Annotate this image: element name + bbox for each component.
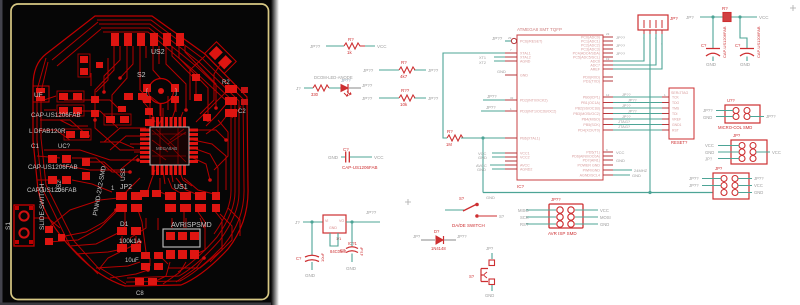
- wire: [379, 69, 426, 71]
- svg-text:CAP-US1206FAB: CAP-US1206FAB: [756, 26, 761, 58]
- svg-text:GND: GND: [328, 155, 339, 160]
- wire: [326, 45, 375, 47]
- svg-text:C8: C8: [136, 291, 144, 297]
- svg-text:GND: GND: [486, 195, 495, 200]
- svg-text:CAP-US1206FAB: CAP-US1206FAB: [27, 187, 77, 194]
- capacitor C3 polarized: [346, 247, 358, 253]
- svg-text:VCC2: VCC2: [520, 156, 530, 160]
- svg-text:C?: C?: [340, 248, 346, 253]
- svg-text:MISO: MISO: [518, 208, 529, 213]
- wires: [716, 111, 764, 117]
- svg-text:R?: R?: [348, 37, 354, 42]
- svg-text:JP??: JP??: [551, 197, 561, 202]
- wire: [445, 209, 464, 211]
- svg-text:IC?: IC?: [517, 184, 525, 189]
- svg-text:US1: US1: [174, 184, 188, 191]
- svg-text:JP??: JP??: [486, 105, 496, 110]
- pad bottom: [489, 279, 495, 285]
- junction: [350, 220, 353, 223]
- switch lever: [463, 205, 476, 212]
- junction: [738, 15, 741, 18]
- resistor R3 row: [363, 60, 439, 79]
- svg-text:S2: S2: [137, 72, 146, 79]
- svg-text:C?: C?: [701, 43, 707, 48]
- svg-text:4k7: 4k7: [400, 74, 408, 79]
- wire stub: [712, 57, 714, 62]
- svg-text:TMS: TMS: [672, 107, 680, 111]
- svg-text:330: 330: [311, 92, 319, 97]
- svg-text:JP??: JP??: [703, 108, 713, 113]
- svg-text:32: 32: [510, 96, 514, 100]
- right bottom power wires: [613, 170, 632, 175]
- svg-text:1k: 1k: [347, 50, 353, 55]
- LED row: [296, 75, 373, 97]
- pad top: [489, 260, 495, 266]
- svg-text:D1: D1: [120, 221, 129, 228]
- svg-text:S?: S?: [499, 214, 505, 219]
- svg-text:XT1: XT1: [479, 56, 486, 60]
- svg-text:MICRO-COL SMD: MICRO-COL SMD: [718, 125, 752, 130]
- svg-text:VCC: VCC: [772, 150, 781, 155]
- svg-text:PB5(SCK): PB5(SCK): [583, 123, 600, 127]
- reset pin bubble: [492, 36, 517, 44]
- svg-text:GND: GND: [706, 62, 717, 67]
- central IC U1 body: [150, 127, 189, 165]
- svg-text:MOSI: MOSI: [600, 215, 611, 220]
- wire: [444, 239, 456, 241]
- svg-text:29: 29: [508, 36, 512, 40]
- pcb background: [0, 0, 277, 305]
- wires MCU to JTAG connector: [613, 97, 662, 130]
- svg-text:JP??: JP??: [754, 176, 764, 181]
- svg-text:PB0(ICP1): PB0(ICP1): [583, 96, 600, 100]
- svg-text:J?: J?: [296, 86, 301, 91]
- svg-text:TDI: TDI: [672, 112, 678, 116]
- svg-text:JP??: JP??: [622, 93, 631, 97]
- svg-text:1N4148: 1N4148: [431, 246, 446, 251]
- wire cap2 drop: [351, 222, 353, 246]
- svg-text:JP??: JP??: [622, 115, 631, 119]
- svg-text:VO: VO: [339, 219, 344, 223]
- svg-text:L DFAB120R: L DFAB120R: [29, 128, 66, 135]
- svg-text:GND: GND: [705, 150, 714, 155]
- wires to top connector: [613, 34, 662, 69]
- svg-text:]: ]: [175, 89, 177, 96]
- wire top: [491, 253, 493, 259]
- wire bottom: [491, 285, 493, 291]
- svg-text:JP??: JP??: [428, 68, 439, 73]
- svg-text:SCK: SCK: [520, 215, 529, 220]
- svg-text:JP??: JP??: [366, 210, 377, 215]
- origin cross 2: [790, 5, 796, 11]
- capacitor C2 polarized: [305, 255, 319, 261]
- svg-text:GND: GND: [346, 266, 357, 271]
- svg-text:JP??: JP??: [616, 51, 626, 56]
- svg-text:AGND: AGND: [520, 60, 531, 64]
- left edge traces: [37, 58, 98, 274]
- svg-text:JP??: JP??: [616, 43, 626, 48]
- svg-text:U??: U??: [727, 98, 735, 103]
- MCU box: [517, 35, 603, 180]
- mid pads row above JP2: [48, 155, 161, 197]
- switch S2 octagon: [137, 72, 179, 104]
- svg-text:AVRISPSMD: AVRISPSMD: [171, 222, 212, 229]
- right top pin net labels: [616, 35, 631, 129]
- svg-text:S?: S?: [469, 274, 475, 279]
- resistor footprint pads mid-left: [59, 56, 153, 138]
- svg-text:1M: 1M: [446, 142, 452, 147]
- svg-text:PD4(XCK/T0): PD4(XCK/T0): [578, 129, 600, 133]
- pin numbers: [508, 32, 666, 152]
- svg-text:PD2(INT0/XCK2): PD2(INT0/XCK2): [520, 99, 548, 103]
- svg-text:JP??: JP??: [362, 83, 373, 88]
- svg-text:JP??: JP??: [689, 183, 699, 188]
- junction: [310, 220, 313, 223]
- svg-text:JP?: JP?: [670, 16, 678, 21]
- svg-text:AGND2: AGND2: [520, 168, 532, 172]
- diagonal component L1: [204, 42, 236, 74]
- svg-text:C?: C?: [296, 256, 302, 261]
- svg-text:JP??: JP??: [628, 110, 637, 114]
- wire connector pin2 to rail: [649, 34, 651, 193]
- svg-text:RST: RST: [520, 222, 529, 227]
- wire XTAL rail: [443, 53, 505, 138]
- svg-text:CAP-US1206FAB: CAP-US1206FAB: [342, 165, 378, 170]
- wire in: [303, 221, 323, 223]
- svg-text:JP??: JP??: [310, 44, 321, 49]
- svg-text:ATMEGA8 SMT TQFP: ATMEGA8 SMT TQFP: [517, 27, 562, 32]
- wire cap C5 drop: [740, 17, 747, 48]
- svg-text:PB3(MOSI/OC2): PB3(MOSI/OC2): [573, 112, 600, 116]
- wire stub: [746, 57, 748, 62]
- MCU inside pin names right: [572, 36, 601, 178]
- junction on rail: [648, 191, 651, 194]
- wire gray: [349, 87, 361, 89]
- svg-text:US2: US2: [151, 49, 165, 56]
- svg-text:C?: C?: [735, 43, 741, 48]
- origin cross: [405, 199, 411, 205]
- svg-text:UF: UF: [34, 92, 43, 99]
- svg-text:JP?: JP?: [705, 157, 713, 162]
- svg-text:R?: R?: [722, 6, 728, 11]
- right resistor stack R2/C2: [222, 80, 248, 117]
- svg-text:DA/DE SWITCH: DA/DE SWITCH: [452, 223, 485, 228]
- junction: [481, 136, 484, 139]
- wire stub: [351, 254, 353, 263]
- svg-text:VCC: VCC: [759, 15, 769, 20]
- svg-text:JP??: JP??: [766, 114, 776, 119]
- svg-text:GND: GND: [754, 190, 763, 195]
- wire: [421, 239, 435, 241]
- pins 2x3: [557, 207, 574, 227]
- svg-text:IC?1: IC?1: [348, 241, 358, 246]
- wire resistor to MCU: [461, 137, 505, 139]
- svg-text:RST: RST: [672, 129, 679, 133]
- svg-text:UC?: UC?: [58, 144, 71, 150]
- wire: [379, 97, 426, 99]
- svg-text:PB6(XTAL1): PB6(XTAL1): [520, 137, 540, 141]
- svg-text:C?: C?: [343, 147, 349, 152]
- wires: [702, 179, 752, 193]
- svg-text:MEGA8AB: MEGA8AB: [156, 146, 177, 151]
- svg-text:S1: S1: [5, 222, 12, 230]
- resistor R1: [344, 43, 365, 49]
- trace web: [34, 22, 241, 284]
- svg-text:JP?: JP?: [733, 133, 741, 138]
- svg-text:VCC: VCC: [374, 155, 384, 160]
- svg-text:CAP-US1206FAB: CAP-US1206FAB: [31, 112, 81, 119]
- svg-text:VCC: VCC: [705, 143, 714, 148]
- svg-text:CAP-US1206FAB: CAP-US1206FAB: [722, 26, 727, 58]
- pins 2x2: [733, 108, 750, 120]
- svg-text:TDO: TDO: [672, 101, 680, 105]
- wire VCC rail: [700, 16, 757, 18]
- svg-text:GND: GND: [616, 158, 625, 163]
- svg-text:GND: GND: [305, 273, 316, 278]
- svg-text:C2: C2: [238, 109, 246, 115]
- MCU inside pin names left: [520, 40, 556, 172]
- outline small footprints: [57, 54, 131, 140]
- svg-text:CAP-US1206FAB: CAP-US1206FAB: [28, 164, 78, 171]
- svg-text:GND: GND: [520, 74, 528, 78]
- net labels left bottom: [476, 69, 506, 172]
- US1 pads 3x2: [165, 192, 220, 212]
- svg-text:PC6(/RESET): PC6(/RESET): [520, 40, 542, 44]
- svg-text:PWR/GND: PWR/GND: [583, 169, 601, 173]
- wire out: [346, 221, 380, 223]
- MCU left pin stubs: [505, 53, 517, 169]
- wires right: [575, 210, 598, 224]
- pin stubs: [662, 97, 669, 130]
- resistor R4 row: [362, 88, 439, 107]
- inside pin names: [672, 96, 682, 133]
- svg-text:23: 23: [606, 32, 610, 36]
- svg-text:JP??: JP??: [457, 234, 467, 239]
- svg-text:GND: GND: [477, 167, 486, 172]
- svg-text:JP??: JP??: [616, 35, 626, 40]
- svg-text:JP??: JP??: [689, 176, 699, 181]
- svg-text:JP??: JP??: [492, 36, 503, 41]
- wires left: [526, 210, 556, 224]
- component UF top-left: [33, 86, 49, 102]
- svg-text:SER/JTAG: SER/JTAG: [671, 91, 689, 95]
- junction: [711, 15, 714, 18]
- svg-text:GND: GND: [632, 173, 641, 178]
- resistor R2: [313, 85, 329, 91]
- svg-text:JP??: JP??: [622, 104, 631, 108]
- LED LED1: [341, 84, 351, 96]
- svg-text:JP2: JP2: [120, 184, 132, 191]
- svg-text:JP?: JP?: [486, 246, 494, 251]
- pins 2x3: [721, 176, 738, 196]
- wire down to rail: [482, 138, 484, 193]
- svg-text:GND: GND: [600, 222, 609, 227]
- svg-text:JP?: JP?: [715, 166, 723, 171]
- svg-text:AVR ISP SMD: AVR ISP SMD: [548, 231, 577, 236]
- svg-text:AREF: AREF: [590, 68, 600, 72]
- pins 2x3: [739, 143, 756, 162]
- svg-text:JP?: JP?: [686, 15, 694, 20]
- svg-text:PD1(TXD): PD1(TXD): [583, 80, 600, 84]
- svg-text:GND: GND: [703, 115, 712, 120]
- svg-text:VCC: VCC: [754, 183, 763, 188]
- svg-text:GND: GND: [740, 62, 751, 67]
- concentric traces right side: [97, 20, 244, 282]
- ground rail wire: [483, 192, 713, 194]
- svg-text:PB4(MISO): PB4(MISO): [582, 118, 600, 122]
- regulator IC1: [323, 215, 346, 233]
- board outline: [33, 16, 248, 286]
- svg-text:PD7(AIN1): PD7(AIN1): [583, 159, 600, 163]
- svg-text:47uF: 47uF: [359, 246, 364, 256]
- svg-text:PD3(INT1/OC2B/OC2): PD3(INT1/OC2B/OC2): [520, 110, 556, 114]
- regulator SOT footprint with white outline: [163, 229, 200, 259]
- svg-text:GND: GND: [485, 293, 494, 298]
- svg-text:D?: D?: [434, 229, 440, 234]
- wire cap1 drop: [311, 222, 313, 255]
- svg-text:JP?: JP?: [413, 234, 421, 239]
- svg-text:VCC: VCC: [600, 208, 609, 213]
- svg-text:10uF: 10uF: [320, 252, 325, 262]
- svg-text:PB2(SS/OC1B): PB2(SS/OC1B): [575, 107, 600, 111]
- pads near switch: [45, 226, 65, 245]
- MCU right pin stubs: [603, 37, 613, 175]
- svg-text:VCC: VCC: [377, 44, 387, 49]
- wire: [341, 156, 372, 158]
- svg-text:DCOM-LED-ANODE: DCOM-LED-ANODE: [314, 75, 353, 80]
- wires: [718, 146, 770, 159]
- svg-text:1/1: 1/1: [336, 237, 341, 241]
- central IC U1 TQFP32 pins: [140, 117, 198, 175]
- svg-text:JP??: JP??: [362, 96, 373, 101]
- svg-text:100k1A: 100k1A: [119, 238, 142, 245]
- svg-text:AGND/SCL4: AGND/SCL4: [580, 174, 600, 178]
- svg-text:C1: C1: [31, 143, 40, 150]
- svg-text:VI: VI: [325, 219, 328, 223]
- wire cap C4 drop: [712, 17, 714, 48]
- svg-text:S?: S?: [459, 196, 465, 201]
- svg-text:RESET?: RESET?: [671, 140, 688, 145]
- resistor R1 row: [310, 37, 387, 55]
- resistor R3: [399, 67, 415, 73]
- wire: [304, 87, 341, 89]
- capacitor C5: [740, 49, 754, 57]
- gold dimension frame: [11, 4, 269, 300]
- JP2 pads 2x2: [116, 192, 142, 212]
- svg-text:GND: GND: [497, 69, 506, 74]
- resistor R4: [399, 95, 415, 101]
- svg-text:10k: 10k: [400, 102, 408, 107]
- svg-text:J?: J?: [295, 220, 300, 225]
- svg-text:JP??: JP??: [363, 68, 374, 73]
- svg-text:VREF: VREF: [672, 118, 681, 122]
- svg-text:XT2: XT2: [479, 61, 486, 65]
- svg-text:1: 1: [510, 107, 512, 111]
- wire right: [479, 215, 497, 217]
- svg-text:TCK: TCK: [672, 96, 680, 100]
- svg-text:JP??: JP??: [487, 94, 497, 99]
- resistor R6 body: [723, 13, 731, 22]
- svg-text:PB1(OC1A): PB1(OC1A): [581, 101, 600, 105]
- svg-text:12: 12: [606, 93, 610, 97]
- svg-text:7: 7: [510, 48, 512, 52]
- capacitor C4: [706, 49, 720, 57]
- svg-text:19: 19: [606, 57, 610, 61]
- svg-text:VCC: VCC: [616, 150, 625, 155]
- svg-text:GND: GND: [478, 155, 487, 160]
- svg-text:10uF: 10uF: [125, 258, 139, 264]
- wire gnd pin loop: [330, 233, 338, 246]
- window edge strip: [0, 0, 3, 305]
- wire pd3: [481, 110, 505, 112]
- diode D1 pads: [117, 227, 163, 285]
- svg-text:R?: R?: [401, 60, 407, 65]
- svg-text:GND1: GND1: [672, 123, 682, 127]
- svg-text:POWER GND: POWER GND: [577, 164, 600, 168]
- svg-text:9: 9: [606, 148, 608, 152]
- svg-text:US3: US3: [120, 168, 127, 181]
- svg-text:JP??: JP??: [428, 96, 439, 101]
- wire xtal stubs: [494, 57, 505, 61]
- svg-text:R?: R?: [447, 129, 453, 134]
- resistor R5: [447, 135, 463, 141]
- net labels on jtag wires: [622, 93, 637, 119]
- svg-text:GND: GND: [329, 226, 337, 230]
- svg-text:1: 1: [664, 93, 666, 97]
- wire stub: [311, 262, 313, 270]
- slide switch S1: [5, 205, 34, 246]
- svg-text:JP??: JP??: [628, 99, 637, 103]
- diode: [436, 236, 443, 244]
- wire pd2: [483, 99, 505, 101]
- left bottom wires: [490, 153, 505, 169]
- via dots: [86, 74, 228, 272]
- svg-text:R??: R??: [401, 88, 410, 93]
- pads: top connector US2 row: [111, 33, 184, 46]
- svg-text:R2: R2: [222, 80, 230, 86]
- button contacts: [481, 269, 488, 282]
- capacitor C1: [328, 147, 384, 170]
